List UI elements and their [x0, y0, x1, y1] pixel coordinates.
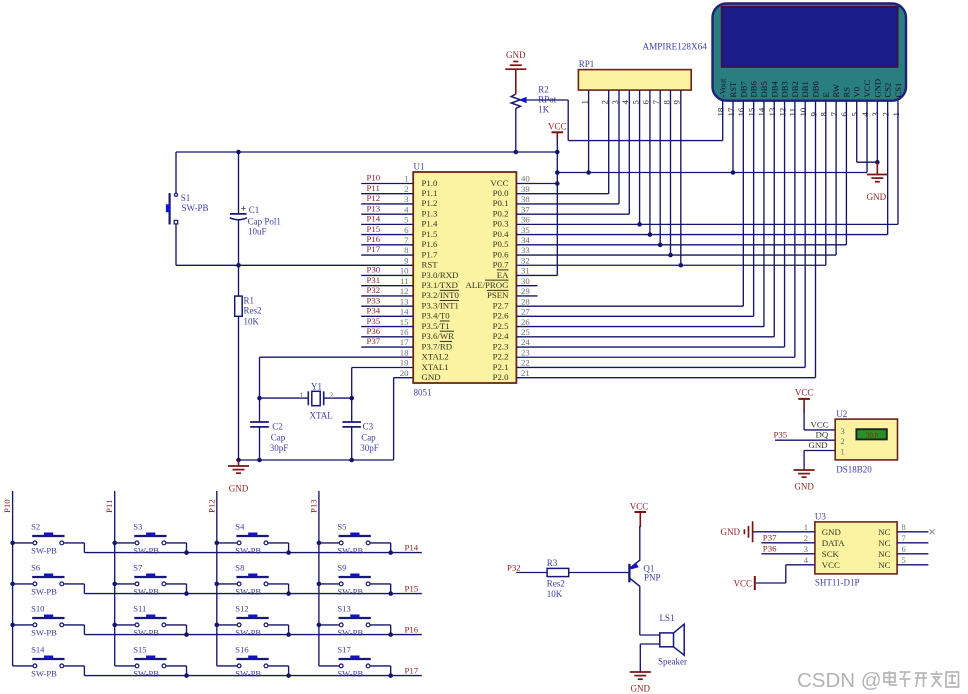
svg-text:Y1: Y1	[311, 382, 322, 392]
svg-text:10K: 10K	[547, 589, 563, 599]
svg-text:P30: P30	[367, 265, 381, 275]
svg-text:NC: NC	[878, 527, 890, 537]
svg-text:38: 38	[521, 194, 530, 204]
svg-text:34: 34	[521, 235, 530, 245]
svg-text:RST: RST	[422, 260, 439, 270]
resistor R3 Res2 10K	[547, 558, 569, 599]
wire U3 pin5 NC stub	[897, 564, 928, 566]
svg-text:Res2: Res2	[244, 306, 262, 316]
svg-text:DQ: DQ	[816, 430, 829, 440]
svg-text:Cap Pol1: Cap Pol1	[248, 216, 281, 226]
svg-text:VCC: VCC	[733, 578, 752, 588]
wire U1 pin7 with net label P16	[361, 234, 413, 245]
LCD module AMPIRE128X64	[713, 4, 907, 101]
svg-text:P10: P10	[2, 499, 12, 513]
svg-text:16: 16	[736, 107, 746, 116]
svg-text:U3: U3	[815, 512, 826, 522]
svg-text:S2: S2	[31, 522, 40, 532]
svg-text:Speaker: Speaker	[658, 657, 687, 667]
svg-text:R3: R3	[547, 558, 558, 568]
svg-text:P16: P16	[405, 624, 419, 634]
svg-text:16: 16	[400, 327, 409, 337]
svg-text:EA: EA	[497, 270, 509, 280]
svg-text:1: 1	[299, 390, 303, 400]
junction S6 column	[10, 582, 15, 587]
svg-text:2: 2	[404, 184, 408, 194]
svg-text:P3.7/RD: P3.7/RD	[422, 341, 453, 351]
wire LCD pin10 DB1 drop	[804, 101, 806, 368]
wire keypad column P12	[206, 491, 217, 666]
wire keypad column P10	[2, 491, 13, 666]
svg-text:U1: U1	[414, 162, 425, 172]
svg-text:S1: S1	[181, 193, 191, 203]
svg-text:AMPIRE128X64: AMPIRE128X64	[643, 42, 708, 52]
junction RP1 pin1	[586, 170, 591, 175]
svg-text:P0.2: P0.2	[493, 208, 509, 218]
junction pin40-VCC	[555, 181, 560, 186]
svg-text:P0.0: P0.0	[493, 188, 509, 198]
wire U3 pin8 NC stub	[897, 529, 934, 534]
wire U1 pin13 with net label P33	[361, 295, 413, 306]
svg-text:DB2: DB2	[790, 81, 800, 97]
wire U1 pin16 with net label P36	[361, 326, 413, 337]
svg-text:-Vout: -Vout	[718, 78, 728, 98]
svg-text:SW-PB: SW-PB	[235, 628, 261, 638]
wire U1 pin10 with net label P30	[361, 265, 413, 276]
junction LCD RST pin17	[731, 170, 736, 175]
switch S15 SW-PB	[115, 645, 187, 679]
wire U1 pin3 with net label P12	[361, 193, 413, 204]
svg-text:GND: GND	[872, 79, 882, 98]
svg-text:8051: 8051	[414, 388, 432, 398]
wire LCD pin2 CS2 drop	[887, 101, 889, 235]
svg-text:SW-PB: SW-PB	[235, 669, 261, 679]
wire LCD pin4 VCC drop	[866, 101, 868, 173]
wire LCD pin1 CS1 drop	[897, 101, 899, 225]
svg-text:SW-PB: SW-PB	[337, 546, 363, 556]
wire keypad column P13	[308, 491, 319, 666]
svg-text:GND: GND	[867, 192, 887, 202]
svg-text:ALE/PROG: ALE/PROG	[465, 280, 509, 290]
humidity sensor U3 SHT11-D1P	[804, 512, 906, 588]
svg-text:P35: P35	[367, 316, 381, 326]
junction RP1 pull-up on P0.3	[637, 222, 642, 227]
svg-text:P16: P16	[367, 234, 381, 244]
svg-text:P13: P13	[308, 499, 318, 513]
svg-text:P10: P10	[367, 173, 381, 183]
crystal Y1 XTAL	[260, 382, 352, 421]
svg-text:5: 5	[404, 215, 409, 225]
junction S12 column	[215, 623, 220, 628]
switch S6 SW-PB	[13, 563, 85, 597]
junction S16 row	[286, 673, 291, 678]
svg-text:RW: RW	[831, 83, 841, 97]
svg-text:4: 4	[404, 204, 409, 214]
power VCC symbol speaker	[630, 502, 649, 528]
svg-text:1: 1	[804, 522, 808, 532]
wire RP1 pin5	[639, 90, 641, 224]
wire RP1 pin3	[618, 90, 620, 204]
svg-text:CSDN @: CSDN @	[797, 669, 882, 692]
switch S13 SW-PB	[319, 604, 391, 638]
wire VCC to Q1 emitter	[639, 526, 641, 561]
wire P2.0 row to LCD DB0	[516, 377, 815, 379]
wire U3 pin6 NC stub	[897, 553, 928, 555]
wire reset rail to U1 RST	[176, 264, 413, 266]
svg-text:3: 3	[404, 194, 409, 204]
svg-text:GND: GND	[422, 372, 441, 382]
switch S3 SW-PB	[115, 522, 187, 556]
wire P0.2 to RP1 pin4	[516, 213, 629, 215]
svg-text:VCC: VCC	[822, 560, 840, 570]
svg-text:12: 12	[777, 108, 787, 117]
svg-text:R2: R2	[538, 84, 549, 94]
svg-text:36: 36	[521, 215, 530, 225]
junction S7 column	[112, 582, 117, 587]
svg-text:S6: S6	[31, 563, 41, 573]
svg-text:P1.4: P1.4	[422, 219, 438, 229]
wire P2.6 row to LCD DB6	[516, 315, 753, 317]
svg-text:10: 10	[400, 266, 409, 276]
wire VCC vertical	[556, 132, 558, 275]
svg-text:S8: S8	[235, 563, 244, 573]
wire XTAL1 net (U1 pin19)	[352, 368, 414, 423]
svg-text:S14: S14	[31, 645, 45, 655]
svg-text:15: 15	[746, 107, 756, 116]
svg-text:NC: NC	[878, 538, 890, 548]
svg-text:6: 6	[839, 112, 849, 117]
junction RP1 pull-up on P0.4	[648, 232, 653, 237]
junction VCC stem on rail	[555, 150, 560, 155]
svg-text:7: 7	[651, 100, 661, 105]
wire keypad row net P15	[84, 583, 421, 593]
junction S10 column	[10, 623, 15, 628]
junction C3 bottom	[349, 458, 354, 463]
junction S7 row	[184, 591, 189, 596]
svg-text:S17: S17	[337, 645, 351, 655]
svg-text:1K: 1K	[538, 104, 550, 114]
svg-text:PSEN: PSEN	[487, 290, 509, 300]
svg-text:11: 11	[400, 276, 408, 286]
svg-text:P2.0: P2.0	[493, 372, 509, 382]
svg-text:DB3: DB3	[780, 81, 790, 97]
svg-text:P33: P33	[367, 295, 381, 305]
svg-text:27: 27	[521, 307, 530, 317]
svg-text:Res2: Res2	[547, 579, 565, 589]
svg-text:GND: GND	[506, 50, 526, 60]
wire U1 pin6 with net label P15	[361, 224, 413, 235]
switch S10 SW-PB	[13, 604, 85, 638]
svg-text:22: 22	[521, 358, 530, 368]
svg-text:13: 13	[400, 296, 409, 306]
wire RP1 pin8	[670, 90, 672, 255]
junction S11 row	[184, 632, 189, 637]
switch S17 SW-PB	[319, 645, 391, 679]
wire VCC rail to LCD	[557, 172, 867, 174]
svg-text:19: 19	[400, 358, 409, 368]
svg-text:VCC: VCC	[490, 178, 508, 188]
junction S13 row	[388, 632, 393, 637]
op-amp U1 8051 microcontroller	[400, 162, 531, 398]
svg-text:SW-PB: SW-PB	[133, 587, 159, 597]
svg-text:P3.3/INT1: P3.3/INT1	[422, 300, 459, 310]
svg-text:SW-PB: SW-PB	[337, 628, 363, 638]
wire R2 wiper to LCD -Vout	[527, 100, 723, 141]
wire LCD pin12 DB3 drop	[784, 101, 786, 347]
svg-text:P37: P37	[367, 336, 381, 346]
svg-text:4: 4	[860, 112, 870, 117]
net label P35 wire DQ	[774, 430, 836, 441]
wire P2.4 row to LCD DB4	[516, 336, 774, 338]
svg-text:25: 25	[521, 327, 530, 337]
svg-text:VCC: VCC	[795, 388, 814, 398]
svg-text:DS18B20: DS18B20	[836, 465, 872, 475]
svg-text:XTAL: XTAL	[310, 411, 333, 421]
svg-text:SW-PB: SW-PB	[337, 669, 363, 679]
junction C2 bottom	[257, 458, 262, 463]
svg-text:P0.4: P0.4	[493, 229, 509, 239]
svg-text:P3.2/INT0: P3.2/INT0	[422, 290, 460, 300]
svg-text:P17: P17	[405, 665, 419, 675]
wire RP1 pin4	[628, 90, 630, 214]
svg-text:2: 2	[329, 390, 333, 400]
wire LCD pin16 DB7 drop	[742, 101, 744, 306]
junction RP1 pull-up on P0.6	[668, 253, 673, 258]
junction R2 bottom on rail	[514, 150, 519, 155]
junction V0-GND	[875, 160, 880, 165]
svg-text:SW-PB: SW-PB	[31, 628, 57, 638]
wire LCD pin8 E drop	[825, 101, 827, 266]
switch S4 SW-PB	[217, 522, 289, 556]
svg-text:GND: GND	[809, 440, 828, 450]
svg-text:P3.4/T0: P3.4/T0	[422, 311, 451, 321]
wire VCC to U2 pin3	[804, 411, 835, 430]
svg-text:5: 5	[850, 112, 860, 117]
svg-text:U2: U2	[836, 409, 847, 419]
svg-text:SCK: SCK	[822, 549, 840, 559]
junction S8 row	[286, 591, 291, 596]
svg-text:P0.6: P0.6	[493, 249, 509, 259]
wire keypad row net P16	[84, 624, 421, 634]
svg-text:C1: C1	[249, 205, 260, 215]
switch S8 SW-PB	[217, 563, 289, 597]
svg-text:P1.7: P1.7	[422, 249, 438, 259]
svg-text:29: 29	[521, 286, 530, 296]
junction S5 column	[317, 541, 322, 546]
wire LCD pin17 RST	[732, 101, 734, 173]
junction S2 column	[10, 541, 15, 546]
wire U1 pin14 with net label P34	[361, 306, 413, 317]
wire LCD pin9 DB0 drop	[814, 101, 816, 378]
svg-text:3: 3	[841, 426, 845, 436]
svg-text:5: 5	[630, 100, 640, 105]
wire U1 pin15 with net label P35	[361, 316, 413, 327]
svg-text:37: 37	[521, 204, 530, 214]
svg-text:8: 8	[404, 245, 409, 255]
svg-text:P2.3: P2.3	[493, 341, 509, 351]
junction VCC-rail upper	[555, 170, 560, 175]
svg-text:Cap: Cap	[361, 433, 376, 443]
junction S3 row	[184, 550, 189, 555]
svg-text:S7: S7	[133, 563, 143, 573]
svg-text:P31: P31	[367, 275, 381, 285]
svg-text:PNP: PNP	[644, 573, 661, 583]
svg-text:S5: S5	[337, 522, 346, 532]
wire LCD pin6 RS drop	[845, 101, 847, 245]
junction S5 row	[388, 550, 393, 555]
svg-text:E: E	[821, 92, 831, 97]
junction S9 row	[388, 591, 393, 596]
junction RP1 pull-up on P0.7	[679, 263, 684, 268]
junction S17 row	[388, 673, 393, 678]
svg-text:2: 2	[804, 533, 808, 543]
svg-text:S11: S11	[133, 604, 146, 614]
svg-text:P3.6/WR: P3.6/WR	[422, 331, 455, 341]
capacitor C3 Cap 30pF	[342, 422, 378, 461]
switch S1 SW-PB	[166, 193, 209, 225]
svg-text:NC: NC	[878, 549, 890, 559]
wire keypad row net P17	[84, 665, 421, 675]
transistor Q1 PNP	[629, 560, 660, 586]
power VCC symbol U3 (rotated)	[733, 576, 754, 590]
wire P2.3 row to LCD DB3	[516, 346, 784, 348]
svg-text:P3.0/RXD: P3.0/RXD	[422, 270, 459, 280]
svg-text:24: 24	[521, 337, 530, 347]
svg-text:S15: S15	[133, 645, 146, 655]
watermark CSDN	[797, 669, 959, 692]
svg-text:C3: C3	[363, 422, 374, 432]
svg-text:CS2: CS2	[883, 83, 893, 98]
power VCC symbol top	[548, 122, 567, 133]
svg-text:S3: S3	[133, 522, 142, 532]
svg-text:DB5: DB5	[759, 81, 769, 97]
junction S15 row	[184, 673, 189, 678]
svg-text:35: 35	[521, 225, 530, 235]
svg-text:+: +	[241, 204, 247, 215]
svg-text:SW-PB: SW-PB	[182, 203, 209, 213]
wire LCD pin7 RW drop	[835, 101, 837, 255]
svg-text:P17: P17	[367, 244, 381, 254]
svg-text:6: 6	[902, 544, 906, 554]
wire RP1 pin7	[659, 90, 661, 245]
svg-text:P2.7: P2.7	[493, 300, 509, 310]
svg-text:8: 8	[819, 112, 829, 117]
wire RP1 pin1 to VCC rail	[588, 90, 590, 172]
wire P2.2 row to LCD DB2	[516, 356, 794, 358]
svg-text:2: 2	[880, 112, 890, 116]
svg-text:P1.1: P1.1	[422, 188, 438, 198]
wire U3 pin7 NC stub	[897, 542, 928, 544]
svg-text:1: 1	[891, 112, 901, 116]
ground symbol U3 (rotated)	[721, 521, 753, 542]
svg-text:P2.4: P2.4	[493, 331, 509, 341]
ground symbol above R2	[505, 50, 526, 94]
wire LCD pin13 DB4 drop	[773, 101, 775, 337]
junction R1 top / C1 bottom	[236, 263, 241, 268]
wire U1 pin5 with net label P14	[361, 214, 413, 225]
svg-text:3: 3	[804, 544, 808, 554]
svg-text:33: 33	[521, 245, 530, 255]
svg-text:GND: GND	[794, 482, 814, 492]
capacitor C2 Cap 30pF	[250, 422, 288, 461]
svg-text:P36: P36	[763, 543, 777, 553]
svg-text:P15: P15	[367, 224, 381, 234]
svg-text:P3.5/T1: P3.5/T1	[422, 321, 450, 331]
junction RP1 pull-up on P0.5	[658, 243, 663, 248]
svg-text:SW-PB: SW-PB	[133, 669, 159, 679]
svg-text:7: 7	[829, 112, 839, 117]
svg-text:2: 2	[841, 436, 845, 446]
svg-text:DB6: DB6	[749, 81, 759, 98]
svg-text:S4: S4	[235, 522, 245, 532]
temperature sensor U2 DS18B20	[809, 409, 898, 475]
wire LCD pin18 -Vout	[722, 101, 724, 141]
wire P2.5 row to LCD DB5	[516, 326, 764, 328]
svg-text:1: 1	[579, 100, 589, 104]
junction S12 row	[286, 632, 291, 637]
svg-text:P1.6: P1.6	[422, 239, 438, 249]
wire P0.7 row to LCD	[516, 264, 825, 266]
svg-text:P1.0: P1.0	[422, 178, 438, 188]
switch S11 SW-PB	[115, 604, 187, 638]
svg-text:P0.3: P0.3	[493, 219, 509, 229]
capacitor C1 Cap Pol1 10uF	[230, 152, 281, 265]
net label P32 wire	[507, 563, 547, 573]
junction crystal right node	[349, 396, 354, 401]
svg-text:P3.1/TXD: P3.1/TXD	[422, 280, 458, 290]
resistor R1 Res2 10K	[235, 265, 262, 460]
wire P0.5 row to LCD	[516, 244, 846, 246]
wire U3 pin4 to VCC	[756, 565, 815, 583]
svg-text:P11: P11	[367, 183, 380, 193]
junction crystal left node	[257, 396, 262, 401]
svg-text:P1.5: P1.5	[422, 229, 438, 239]
junction S8 column	[215, 582, 220, 587]
svg-text:SW-PB: SW-PB	[31, 587, 57, 597]
svg-text:P35: P35	[774, 430, 788, 440]
wire U1 pin17 with net label P37	[361, 336, 413, 347]
net label P37 wire DATA	[761, 532, 815, 543]
svg-text:SW-PB: SW-PB	[337, 587, 363, 597]
svg-text:DB7: DB7	[738, 81, 748, 98]
wire U1 pin2 with net label P11	[361, 183, 413, 194]
wire ground rail to U1 GND pin20	[239, 378, 414, 460]
svg-text:Cap: Cap	[271, 433, 286, 443]
wire U1 pin4 with net label P13	[361, 203, 413, 214]
wire top rail VCC-reset net	[176, 151, 557, 153]
svg-text:23: 23	[521, 347, 530, 357]
wire keypad row net P14	[84, 542, 421, 552]
svg-text:GND: GND	[721, 527, 741, 537]
svg-text:7: 7	[404, 235, 409, 245]
svg-text:VCC: VCC	[630, 502, 649, 512]
svg-text:30: 30	[521, 276, 530, 286]
svg-text:P2.6: P2.6	[493, 311, 509, 321]
svg-text:3: 3	[870, 112, 880, 117]
svg-text:6: 6	[641, 100, 651, 105]
junction S11 column	[112, 623, 117, 628]
wire RP1 pin2	[608, 90, 610, 194]
ground symbol LCD	[867, 162, 888, 202]
svg-text:40: 40	[521, 174, 530, 184]
svg-text:18: 18	[400, 347, 409, 357]
svg-text:32: 32	[521, 255, 530, 265]
svg-text:9: 9	[808, 112, 818, 117]
svg-text:DB4: DB4	[769, 81, 779, 98]
junction S3 column	[112, 541, 117, 546]
svg-text:V0: V0	[852, 87, 862, 98]
svg-text:SW-PB: SW-PB	[235, 587, 261, 597]
